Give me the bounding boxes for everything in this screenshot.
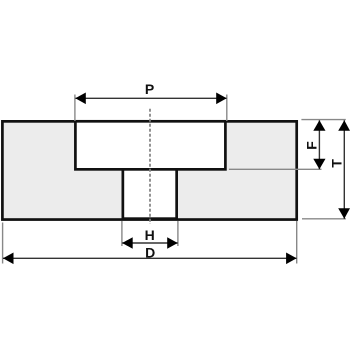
svg-text:H: H [145,227,155,243]
svg-text:T: T [328,159,344,168]
svg-text:P: P [145,81,154,97]
svg-text:D: D [145,244,155,260]
svg-text:F: F [304,141,320,150]
